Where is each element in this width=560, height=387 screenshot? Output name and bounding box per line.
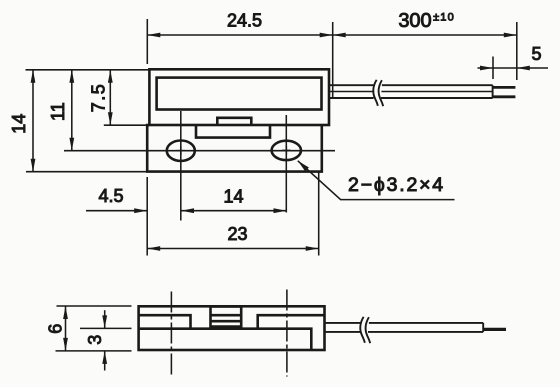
svg-text:4.5: 4.5 [98, 186, 123, 206]
svg-text:7.5: 7.5 [88, 83, 108, 113]
svg-text:5: 5 [531, 44, 541, 64]
svg-text:14: 14 [223, 187, 243, 207]
svg-text:2−ϕ3.2×4: 2−ϕ3.2×4 [348, 174, 445, 196]
svg-text:14: 14 [9, 114, 29, 134]
svg-text:3: 3 [85, 335, 105, 345]
svg-text:300: 300 [398, 10, 431, 32]
svg-text:23: 23 [227, 224, 247, 244]
svg-text:6: 6 [45, 324, 65, 334]
svg-text:24.5: 24.5 [227, 11, 262, 31]
svg-text:11: 11 [48, 102, 68, 121]
svg-text:±10: ±10 [433, 12, 455, 24]
